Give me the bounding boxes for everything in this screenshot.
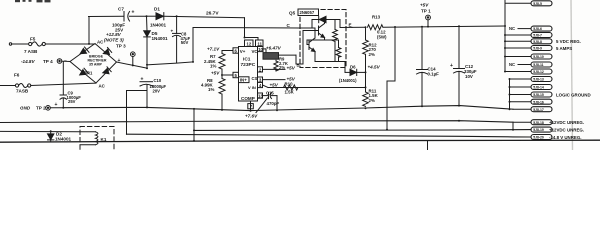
rail corner down to IC <box>244 18 246 38</box>
connector 5J8-14 <box>510 86 532 88</box>
wire C8 bottom to +12.8 node <box>192 61 194 63</box>
svg-text:2%: 2% <box>369 98 375 103</box>
svg-text:7 ASB: 7 ASB <box>24 49 38 54</box>
svg-text:+7.1V: +7.1V <box>207 46 220 51</box>
svg-text:25V: 25V <box>68 99 76 104</box>
svg-text:5J8-12: 5J8-12 <box>533 70 544 74</box>
connector 5J8-10 <box>505 56 531 58</box>
svg-text:26.7V: 26.7V <box>206 11 219 17</box>
svg-text:5J8-14: 5J8-14 <box>533 86 544 90</box>
diode D6 <box>339 62 381 84</box>
svg-text:+5V: +5V <box>287 65 296 70</box>
svg-text:470pF: 470pF <box>267 101 280 106</box>
faint page edge line <box>571 0 573 150</box>
svg-text:50V: 50V <box>181 40 189 45</box>
svg-text:D6: D6 <box>350 65 356 70</box>
svg-text:B: B <box>297 63 300 68</box>
ground bus <box>63 106 513 111</box>
pin 2 +5V <box>258 65 296 72</box>
connector 5J8-13 <box>510 78 532 80</box>
connector 5J8-8 <box>505 40 531 42</box>
capacitor C12 <box>450 26 477 106</box>
resistor R7 <box>204 51 225 76</box>
diode D1 <box>147 7 245 28</box>
wire collector line to Q5 <box>193 27 300 30</box>
svg-text:5J8-11: 5J8-11 <box>533 63 543 67</box>
svg-text:5J8-6: 5J8-6 <box>533 27 542 31</box>
wire -14.8V down to C9 <box>62 62 64 95</box>
T1 emitter to T2 base <box>307 38 325 45</box>
svg-text:5J8-10: 5J8-10 <box>533 55 544 59</box>
svg-text:F5: F5 <box>30 37 36 42</box>
wire bridge + output to C10 node <box>117 62 148 68</box>
base entry <box>296 55 303 64</box>
relay K1 <box>80 127 114 153</box>
svg-text:TP 1: TP 1 <box>421 9 431 14</box>
fuse F5 <box>9 37 95 55</box>
svg-text:5J8-7: 5J8-7 <box>533 34 542 38</box>
svg-text:TP 3: TP 3 <box>116 44 126 49</box>
svg-text:-14.8V: -14.8V <box>21 59 35 64</box>
svg-text:1N4001: 1N4001 <box>150 23 167 28</box>
connector bus vertical <box>504 0 506 72</box>
emitter bottom bus <box>315 61 345 63</box>
partial cut text top-left <box>15 0 51 2</box>
svg-text:20V: 20V <box>153 88 161 93</box>
svg-text:1.5K: 1.5K <box>285 90 295 95</box>
svg-text:NC: NC <box>509 62 515 67</box>
svg-text:E: E <box>349 23 352 28</box>
svg-text:7ASB: 7ASB <box>16 88 29 93</box>
svg-text:-14.8 V UNREG.: -14.8 V UNREG. <box>549 135 581 140</box>
svg-text:+12.8V: +12.8V <box>106 32 122 37</box>
connector 5J8-12 <box>505 71 531 73</box>
svg-text:5J8-19: 5J8-19 <box>533 128 544 132</box>
frame tick mark <box>427 141 429 150</box>
svg-text:+: + <box>55 102 58 108</box>
svg-text:D1: D1 <box>154 7 160 12</box>
resistor R11 <box>363 72 379 109</box>
resistor R12 <box>363 27 377 72</box>
svg-text:35 AMP: 35 AMP <box>89 62 102 66</box>
select resistor (shaded) <box>263 53 296 60</box>
svg-text:BR1: BR1 <box>84 71 93 76</box>
connector 5J8-18 +12VDC UNREG <box>513 121 531 123</box>
pin 3 CS +5V <box>258 77 296 83</box>
svg-text:5 VDC REG.: 5 VDC REG. <box>556 39 581 44</box>
transistor Q5 2N6057 darlington <box>287 9 366 68</box>
T2 lower transistor <box>308 40 310 50</box>
svg-text:(1N4001): (1N4001) <box>339 78 357 83</box>
pin 7 to ground <box>248 101 254 112</box>
connector 5J8 top row <box>505 2 531 4</box>
resistor R13 <box>365 15 506 40</box>
svg-text:(NOTE 3): (NOTE 3) <box>104 38 124 43</box>
svg-text:5J8-16: 5J8-16 <box>533 100 544 104</box>
svg-text:R10: R10 <box>285 81 294 86</box>
svg-text:C15: C15 <box>266 90 274 95</box>
svg-text:12: 12 <box>247 42 252 47</box>
pin 4 V IN / R10 sense line <box>258 82 366 88</box>
internal diode <box>312 19 319 21</box>
svg-text:5 AMPS: 5 AMPS <box>556 46 572 51</box>
svg-text:C10: C10 <box>154 78 162 83</box>
collector wire in <box>300 27 315 29</box>
svg-text:+12VDC UNREG.: +12VDC UNREG. <box>549 120 584 125</box>
connector 5J8-20 -14.8V UNREG <box>531 135 552 140</box>
svg-text:0.1µF: 0.1µF <box>428 72 440 77</box>
top rail 26.7V <box>89 15 125 17</box>
svg-text:+7.6V: +7.6V <box>245 114 258 119</box>
svg-text:V IN: V IN <box>248 85 256 90</box>
svg-text:723PC: 723PC <box>241 62 256 68</box>
capacitor C8 <box>171 15 191 63</box>
logic ground bus vertical <box>509 79 511 109</box>
+7.6V label with leader <box>245 98 268 119</box>
capacitor C9 <box>55 91 82 109</box>
test point TP2 / ground <box>20 106 63 111</box>
tap wire to -14.8 bus <box>127 90 148 92</box>
test point TP3 +12.8V <box>104 32 135 66</box>
diode D2 <box>0 130 80 142</box>
connector 5J8-15 <box>510 94 532 96</box>
svg-text:5J8-15: 5J8-15 <box>533 93 544 97</box>
svg-text:2N6057: 2N6057 <box>300 10 315 15</box>
svg-text:+4.5V: +4.5V <box>368 65 381 70</box>
svg-text:+: + <box>132 10 135 16</box>
svg-text:5J8-13: 5J8-13 <box>533 78 544 82</box>
test point TP4 <box>21 59 70 64</box>
test point TP1 +5V <box>420 3 431 28</box>
resistor R8 <box>201 75 225 111</box>
connector 5J8-7 <box>505 34 531 36</box>
bus L2 +12VDC <box>0 121 513 123</box>
svg-text:F6: F6 <box>14 73 20 78</box>
pin 6 +7.1V <box>207 46 239 53</box>
svg-text:+5V: +5V <box>270 82 279 87</box>
riser wire <box>193 109 195 141</box>
fuse F6 <box>0 73 96 94</box>
svg-text:5J8-18: 5J8-18 <box>533 121 544 125</box>
svg-text:+: + <box>450 63 453 69</box>
svg-text:V+: V+ <box>240 49 246 54</box>
svg-text:CS: CS <box>252 76 258 81</box>
bus L3 +12VDC <box>194 129 531 132</box>
connector 5J8-17 <box>513 108 531 110</box>
svg-text:1%: 1% <box>210 63 216 68</box>
svg-text:10V: 10V <box>465 74 473 79</box>
svg-text:+5V: +5V <box>211 70 220 75</box>
capacitor C14 <box>417 27 440 108</box>
svg-text:+6.47V: +6.47V <box>266 46 282 51</box>
frame line bottom <box>0 140 600 142</box>
svg-text:5J8-5: 5J8-5 <box>533 2 542 6</box>
bus -14.8V to connector <box>127 134 532 137</box>
wire jog from +5V rail down to bus <box>386 27 395 131</box>
connector 5J8-19 +12VDC UNREG <box>531 127 552 132</box>
svg-text:+12VDC UNREG.: +12VDC UNREG. <box>549 127 584 132</box>
svg-text:C7: C7 <box>118 7 124 12</box>
svg-text:IC1: IC1 <box>243 57 251 63</box>
internal resistors <box>334 20 336 30</box>
bridge rectifier BR1 <box>64 40 121 89</box>
svg-text:1N4001: 1N4001 <box>152 36 169 41</box>
svg-text:TP 2: TP 2 <box>36 106 46 111</box>
svg-text:2%: 2% <box>369 52 375 57</box>
capacitor C10 <box>140 77 167 108</box>
svg-text:NC: NC <box>509 26 515 31</box>
svg-text:TP 4: TP 4 <box>43 59 53 64</box>
emitter out <box>340 26 352 28</box>
svg-text:+: + <box>171 29 174 34</box>
svg-text:LOGIC GROUND: LOGIC GROUND <box>556 92 591 97</box>
svg-text:5J8-20: 5J8-20 <box>533 136 544 140</box>
resistor R9 2.7K <box>274 57 288 71</box>
svg-text:1N4001: 1N4001 <box>55 137 72 142</box>
svg-text:AC: AC <box>99 84 106 89</box>
svg-text:COMP: COMP <box>241 96 255 101</box>
svg-text:5J8-9: 5J8-9 <box>533 47 542 51</box>
connector 5J8-9 <box>505 47 531 49</box>
diode D5 <box>144 16 168 68</box>
svg-text:GND: GND <box>20 106 31 111</box>
resistor R10 <box>284 81 298 94</box>
svg-text:5J8-8: 5J8-8 <box>533 40 542 44</box>
T1 upper transistor <box>318 26 320 35</box>
svg-text:1%: 1% <box>208 87 214 92</box>
pin 10 VO <box>258 46 282 54</box>
svg-text:+5V: +5V <box>420 3 429 8</box>
pin 13 / C15 <box>258 90 280 111</box>
svg-text:IN+: IN+ <box>240 78 247 83</box>
svg-text:5J8-17: 5J8-17 <box>533 108 544 112</box>
pin 5 +5V <box>211 70 239 78</box>
capacitor C7 <box>112 7 147 33</box>
connector 5J8-16 <box>510 101 532 103</box>
svg-text:(5W): (5W) <box>377 34 387 39</box>
svg-text:R13: R13 <box>372 15 381 20</box>
wire bridge apex to top rail <box>88 17 90 44</box>
svg-text:Q5: Q5 <box>289 11 296 16</box>
IC1 723PC <box>239 38 264 102</box>
